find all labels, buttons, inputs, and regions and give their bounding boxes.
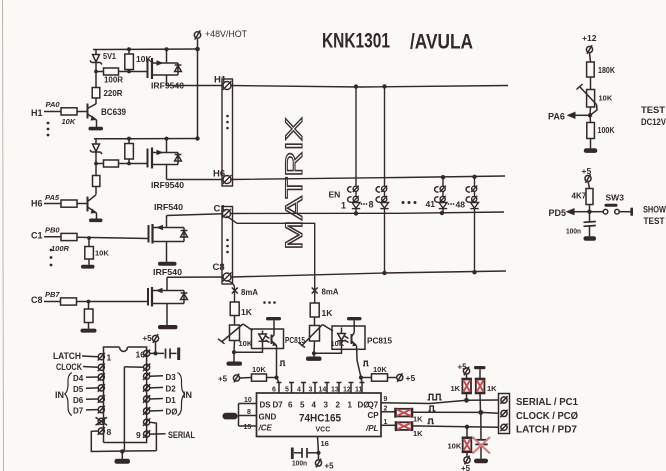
svg-text:10K: 10K (373, 365, 387, 374)
label TEST DC12V (641, 105, 666, 128)
wire PD5 out (549, 208, 590, 218)
label IN left with brace (55, 373, 72, 416)
node rail junctions (127, 47, 200, 52)
svg-text:74HC165: 74HC165 (299, 413, 341, 425)
supply +5 right opto (397, 373, 416, 383)
svg-text:PA5: PA5 (45, 193, 60, 202)
svg-text:8: 8 (107, 427, 112, 437)
label MATRIX vertical (281, 117, 308, 250)
svg-text:16: 16 (136, 350, 146, 360)
label x 8mA left (232, 287, 258, 297)
capacitor 100n test (566, 212, 596, 237)
resistor 100R H6 (96, 160, 129, 167)
svg-text:100n: 100n (566, 227, 581, 236)
svg-text:LATCH / PD7: LATCH / PD7 (516, 424, 577, 436)
svg-text:1K: 1K (413, 415, 423, 424)
wire emitter down right (357, 349, 362, 382)
supply +5 test (582, 166, 592, 189)
node 100R junctions (94, 70, 131, 74)
resistor 1K latch (crossed) (396, 421, 423, 438)
pin 7 crossed (96, 417, 108, 425)
pin stubs top D7..D0 (277, 383, 365, 394)
svg-text:2: 2 (384, 406, 388, 413)
svg-text:/PL: /PL (365, 424, 379, 433)
lamp 48 (466, 186, 479, 273)
node junctions H6 gate (94, 162, 131, 166)
supply +48V/HOT (194, 29, 247, 49)
C8 column driver block (31, 267, 223, 333)
svg-text:BC639: BC639 (101, 107, 126, 117)
resistor 10K (gate pull-up H6) (125, 139, 134, 164)
lamp matrix bus area (213, 75, 509, 304)
node rail junctions H6 (127, 136, 200, 140)
label LATCH / PD7 (516, 424, 577, 436)
wire clock node to cap (480, 412, 482, 439)
pin 5 D6 (73, 395, 105, 405)
svg-text:41: 41 (426, 199, 436, 209)
pin numbers top (272, 387, 363, 394)
pin 8 (98, 427, 112, 437)
svg-text:IN: IN (55, 390, 64, 400)
svg-text:GND: GND (259, 413, 277, 422)
node H6 line junctions (441, 175, 477, 180)
wire LED cathode to ground left (234, 349, 263, 353)
node PA6 junction (588, 113, 592, 117)
svg-text:8: 8 (369, 200, 374, 210)
svg-text:6: 6 (288, 401, 293, 410)
svg-text:100R: 100R (104, 76, 123, 85)
power bar right pullup (474, 366, 486, 379)
svg-text:4: 4 (312, 401, 317, 410)
wire lamp48 feed (474, 177, 476, 186)
lamp 8 (376, 186, 389, 273)
svg-text:/CE: /CE (258, 424, 273, 433)
node H1 line junctions (354, 84, 387, 89)
wire collector to bar right (353, 321, 355, 333)
wire left pin bus (238, 404, 240, 427)
svg-text:PA6: PA6 (548, 112, 565, 122)
node left opto gnd junction (232, 350, 236, 354)
input DIP16 connector (53, 334, 195, 464)
svg-text:PC815: PC815 (285, 335, 305, 345)
wire lamp41 feed (442, 177, 444, 186)
svg-text:+5: +5 (458, 363, 468, 372)
svg-text:+48V/HOT: +48V/HOT (205, 29, 247, 40)
svg-text:D7: D7 (73, 407, 84, 416)
wire gate C8 (77, 301, 149, 303)
input resistor 100R C1 (31, 226, 77, 254)
wire C1 column line (231, 212, 505, 214)
label pulse latch (428, 419, 434, 423)
svg-text:16: 16 (321, 439, 329, 448)
svg-text:10K: 10K (95, 249, 109, 258)
wire C8 column line (231, 271, 506, 277)
ground left opto (227, 352, 243, 366)
connector strip H rows (222, 79, 233, 186)
power bar right opto (347, 317, 362, 320)
transistor Q1 BC639 (88, 104, 127, 128)
svg-text:15: 15 (244, 424, 252, 431)
svg-text:DC12V: DC12V (641, 117, 666, 128)
pin 10 right lower (143, 418, 156, 450)
svg-text:3: 3 (324, 401, 329, 410)
svg-text:IRF540: IRF540 (153, 267, 182, 277)
wire source to ground C8 (166, 304, 168, 326)
svg-text:5: 5 (285, 387, 289, 394)
svg-text:C1: C1 (214, 204, 227, 215)
svg-text:3: 3 (309, 387, 313, 394)
svg-text:5: 5 (300, 401, 305, 410)
supply +5 dip16 (143, 334, 159, 353)
svg-text:/AVULA: /AVULA (410, 31, 473, 54)
serial/clock/latch output section (381, 363, 578, 471)
label IN right with brace (178, 373, 193, 416)
wire trimmer wiper to LED left (243, 324, 253, 331)
svg-text:9: 9 (136, 430, 141, 440)
wire C1 pad to right opto (227, 216, 315, 303)
svg-text:IRF9540: IRF9540 (151, 180, 184, 190)
svg-text:D3: D3 (166, 373, 177, 382)
ground 100K (584, 148, 598, 153)
node emitter junction right (359, 375, 363, 379)
wire drain to H6 pad (167, 179, 224, 181)
ground U4 source (158, 325, 178, 329)
svg-text:PB7: PB7 (45, 290, 60, 299)
resistor 1K serial pullup (crossed) (451, 379, 472, 400)
svg-text:1: 1 (107, 353, 112, 363)
connector strip C columns (222, 207, 233, 285)
resistor 1K right opto (310, 303, 333, 326)
ground Q1 emitter (89, 127, 104, 131)
wire PA6 out (548, 112, 590, 122)
resistor 4K7 (572, 189, 594, 212)
connector J1 3pin (499, 394, 510, 434)
svg-text:8mA: 8mA (322, 287, 339, 297)
ground U3 source (158, 262, 177, 266)
node gate junction C8 (87, 300, 91, 304)
wire CLOCK line (412, 412, 499, 413)
svg-text:PC815: PC815 (367, 336, 392, 346)
pin 9 SERIAL (136, 430, 195, 440)
svg-text:EN: EN (329, 190, 341, 200)
svg-text:D1: D1 (166, 396, 177, 405)
svg-text:VCC: VCC (316, 427, 331, 434)
svg-text:10K: 10K (252, 365, 266, 374)
wire gate C1 (77, 237, 149, 238)
wire +48V rail H6 block (94, 138, 198, 140)
ground Q2 emitter (89, 219, 103, 223)
wire drain to C1 pad (167, 214, 223, 228)
svg-text:CLOCK: CLOCK (56, 362, 82, 372)
svg-text:220R: 220R (104, 88, 123, 98)
svg-text:DS: DS (260, 401, 272, 410)
pin 15 /CE (239, 424, 273, 433)
node dip gnd junction (120, 449, 124, 453)
svg-text:5V1: 5V1 (103, 52, 117, 61)
svg-text:SW3: SW3 (606, 193, 625, 203)
svg-text:10K: 10K (136, 54, 152, 64)
supply +5 left opto (218, 374, 252, 384)
node dots between 41 and 48 (448, 203, 455, 205)
wire H1 row line (231, 86, 508, 88)
ground right opto (306, 353, 322, 361)
pin 10 DS (239, 397, 272, 410)
wire trimmer wiper to LED right (323, 325, 334, 332)
trimmer 10K right opto (299, 325, 345, 349)
capacitor dip16 (166, 348, 179, 361)
pin labels D7..D0 inside (273, 401, 370, 410)
svg-text:100n: 100n (292, 459, 307, 468)
pin 2 CLOCK (56, 362, 105, 372)
svg-text:8: 8 (247, 409, 251, 416)
label EN (329, 190, 341, 200)
H1 row driver block (31, 29, 247, 139)
optocoupler U6 PC815 (332, 326, 392, 349)
node strip C ellipsis (226, 239, 229, 254)
mosfet U4 IRF540 (148, 267, 187, 307)
shift register 74HC165 (223, 383, 397, 471)
svg-text:4: 4 (297, 387, 301, 394)
pin 13 D2 (143, 384, 176, 393)
svg-text:8mA: 8mA (241, 287, 258, 297)
pin 9 Q7 (368, 396, 388, 410)
wire SERIAL line (381, 400, 499, 404)
wire LATCH line (412, 426, 499, 427)
resistor 10K pullup right (361, 365, 397, 381)
resistor 220R H6 (93, 164, 100, 195)
svg-text:1: 1 (384, 419, 388, 426)
svg-text:100K: 100K (598, 126, 615, 135)
svg-text:1K: 1K (322, 308, 334, 318)
svg-text:1K: 1K (487, 384, 497, 393)
node H1 pad (223, 81, 232, 90)
node left ellipsis (47, 122, 50, 137)
resistor 180K (587, 62, 616, 90)
svg-text:SERIAL / PC1: SERIAL / PC1 (516, 396, 578, 408)
node emitter junction left (274, 375, 278, 379)
zener diode 5V1 (90, 49, 117, 71)
svg-text:H6: H6 (31, 199, 43, 209)
optocoupler feedback circuits (218, 287, 415, 384)
pin 11 D0 (143, 407, 178, 416)
node C1 pad (222, 209, 231, 218)
wire gate H6 (129, 163, 148, 165)
input resistor 10K H6 (31, 193, 88, 209)
label pulse right (363, 361, 369, 366)
svg-text:C1: C1 (31, 231, 43, 241)
wire source to ground (166, 242, 168, 262)
svg-text:2: 2 (336, 401, 341, 410)
svg-text:D4: D4 (73, 374, 84, 383)
node right opto gnd junction (312, 351, 316, 355)
resistor 10K (gate pull-up) (125, 49, 153, 72)
pin 15 wire to gnd center (124, 364, 150, 452)
test voltage circuits (548, 33, 666, 241)
scan edge line (3, 0, 4, 471)
ground 10K pulldown C1 (81, 265, 95, 269)
capacitor 100n at VCC (292, 448, 319, 468)
pin 1 /PL (365, 419, 396, 433)
label pulse serial (428, 394, 442, 400)
pin 6 D7 (73, 406, 105, 416)
svg-text:D2: D2 (166, 385, 177, 394)
resistor 10K latch pulldown (crossed) (448, 427, 473, 452)
svg-text:SERIAL: SERIAL (168, 430, 195, 440)
svg-text:PB0: PB0 (45, 226, 60, 235)
svg-text:10K: 10K (239, 339, 253, 348)
pin 16 VCC dip (136, 350, 151, 360)
svg-text:100R: 100R (51, 244, 70, 253)
svg-text:1: 1 (348, 401, 353, 410)
svg-text:D5: D5 (73, 385, 84, 394)
svg-text:CP: CP (368, 411, 380, 420)
label CLOCK / PC0 (516, 410, 578, 422)
node C8 pad (223, 273, 232, 282)
svg-text:10K: 10K (448, 442, 462, 451)
svg-text:+5: +5 (143, 334, 153, 343)
svg-text:9: 9 (384, 396, 388, 403)
svg-text:12: 12 (343, 387, 351, 394)
pin 16 VCC stub (318, 437, 329, 453)
resistor 1K clock (crossed) (396, 408, 424, 424)
svg-text:H6: H6 (213, 169, 225, 180)
label pulse left (280, 361, 286, 366)
trimmer 10K test (577, 84, 613, 115)
mosfet U2 IRF9540 (148, 139, 185, 191)
svg-text:D7: D7 (273, 401, 284, 410)
svg-text:LATCH: LATCH (53, 351, 81, 361)
resistor 10K pulldown C8 (84, 302, 93, 329)
trimmer 10K left opto (218, 324, 253, 348)
label SHOW TEST (643, 205, 666, 228)
svg-text:C8: C8 (213, 262, 225, 273)
IC U8 DIP16 body (104, 347, 147, 443)
power bar left opto (266, 317, 281, 320)
svg-text:1K: 1K (413, 429, 423, 438)
svg-text:+5: +5 (325, 462, 335, 471)
node C1 line junctions (354, 211, 444, 216)
wire gate H1 (129, 71, 148, 73)
svg-text:PA0: PA0 (46, 100, 61, 109)
node H6 pad (223, 175, 232, 184)
resistor 100R (96, 68, 129, 85)
svg-text:KNK1301: KNK1301 (322, 29, 390, 53)
ground dip16 (115, 451, 131, 463)
wire lamp1 feed (355, 87, 357, 186)
supply +5 at VCC (315, 453, 334, 471)
svg-text:+5: +5 (406, 373, 416, 383)
mosfet U3 IRF540 (149, 202, 188, 244)
supply +5 below 10K (461, 452, 471, 471)
capacitor (crossed) (473, 437, 491, 459)
svg-text:H1: H1 (214, 75, 227, 86)
node pin16 junction (153, 351, 157, 355)
label pulse clock (429, 406, 436, 411)
wire lamp8 feed (384, 86, 386, 186)
optocoupler U5 PC815 (252, 329, 306, 349)
resistor 1K left opto (230, 302, 253, 325)
input resistor 10K H1 (31, 100, 88, 126)
svg-text:MATRIX: MATRIX (281, 117, 308, 250)
svg-text:+5: +5 (218, 375, 228, 384)
wire drain to H1 pad (167, 85, 224, 87)
resistor 220R (92, 72, 122, 105)
wire H6 row line (231, 176, 505, 180)
svg-text:10K: 10K (62, 117, 76, 126)
resistor 1K clock pullup (crossed) (475, 379, 497, 412)
lamp 41 (435, 186, 448, 213)
node line junctions (464, 398, 483, 429)
ground cap test (584, 236, 597, 240)
svg-text:1K: 1K (241, 307, 253, 317)
wire pin8 to bottom (91, 431, 156, 452)
node dots lamp groups (402, 201, 417, 204)
svg-text:4K7: 4K7 (572, 192, 587, 201)
label x 8mA right (312, 287, 339, 297)
svg-text:IRF540: IRF540 (154, 202, 183, 212)
svg-text:10: 10 (244, 397, 252, 404)
ground 10K pulldown C8 (81, 329, 97, 333)
label SERIAL / PC1 (516, 396, 578, 408)
svg-text:SHOW: SHOW (643, 205, 666, 216)
node dots between 1 and 8 (361, 203, 368, 205)
svg-text:14: 14 (319, 387, 327, 394)
wire +48V feed down (197, 49, 199, 139)
svg-text:H1: H1 (31, 108, 43, 118)
wire drain to C8 pad (167, 277, 223, 291)
wire pin16 to cap (150, 352, 164, 354)
wire +48V rail H1 block (93, 48, 198, 51)
wire trimmer to ground node left (233, 341, 236, 353)
wire emitter down left (277, 349, 279, 383)
svg-text:+5: +5 (461, 464, 471, 471)
node C8 line junctions (382, 270, 476, 275)
IC U7 74HC165 body (257, 393, 382, 437)
svg-text:180K: 180K (598, 66, 615, 75)
supply +5 pullups (458, 363, 470, 380)
pin 14 D3 (143, 372, 176, 382)
svg-text:C8: C8 (31, 295, 43, 305)
node VCC junction (316, 451, 320, 455)
lamp 1 (348, 186, 361, 214)
svg-text:1: 1 (341, 201, 346, 211)
svg-text:+12: +12 (582, 33, 597, 43)
svg-text:48: 48 (456, 200, 466, 210)
title KNK1301 / AVULA (322, 29, 473, 54)
svg-text:PD5: PD5 (549, 208, 567, 218)
resistor 10K pulldown C1 (85, 238, 110, 265)
svg-text:TEST: TEST (644, 216, 665, 227)
node strip H ellipsis (226, 115, 229, 130)
pin 1 LATCH (53, 351, 112, 363)
pin 2 CP (368, 406, 396, 421)
resistor 100K (587, 115, 615, 148)
zener diode D2 (90, 139, 102, 164)
node left ellipsis 2 (50, 249, 53, 267)
ground left bus blob (223, 413, 239, 420)
wire C8 pad to left opto (227, 281, 235, 303)
mosfet U1 IRF9540 (148, 49, 185, 91)
input resistor 100R C8 (31, 290, 77, 305)
svg-text:13: 13 (331, 387, 339, 394)
resistor 10K pullup left (252, 365, 277, 381)
node dots between optos (263, 301, 276, 304)
svg-text:CLOCK / PCØ: CLOCK / PCØ (516, 410, 578, 422)
svg-text:Q7: Q7 (368, 401, 379, 410)
supply +12 (582, 33, 597, 62)
pin 3 D4 (73, 373, 105, 383)
svg-text:DØ: DØ (166, 408, 178, 417)
